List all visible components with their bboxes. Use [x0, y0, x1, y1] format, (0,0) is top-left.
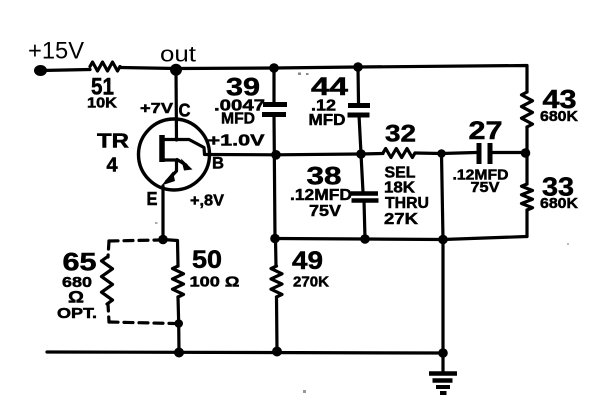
- wire: C39 bottom lead down to lower bus: [274, 115, 275, 239]
- wire: C44 top lead: [356, 67, 360, 103]
- svg-text:75V: 75V: [309, 203, 341, 220]
- svg-text:50: 50: [192, 246, 222, 274]
- wire: bottom node to ground bus: [177, 324, 181, 353]
- svg-text:MFD: MFD: [221, 111, 255, 128]
- svg-text:.12MFD: .12MFD: [290, 187, 352, 204]
- dashed box left upper edge: [108, 241, 109, 257]
- svg-text:27K: 27K: [384, 211, 419, 228]
- wire: collector lead from out node: [174, 70, 178, 141]
- wire: emitter lead down: [161, 186, 164, 240]
- svg-text:+1.0V: +1.0V: [208, 133, 265, 150]
- capacitor C39 .0047 MFD: [262, 105, 287, 115]
- svg-text:Ω: Ω: [68, 288, 84, 307]
- transistor TR4 inner arrowhead: [181, 159, 193, 171]
- terminal dot +15V: [34, 65, 47, 76]
- svg-text:680K: 680K: [540, 195, 578, 212]
- svg-text:TR: TR: [97, 131, 130, 153]
- wire: R50 to bottom node: [176, 297, 180, 324]
- transistor TR4 circle: [139, 119, 210, 190]
- wire: node B2 to R32: [361, 152, 383, 156]
- wire: C44 bottom to node B2: [359, 115, 361, 154]
- svg-text:27: 27: [469, 117, 503, 145]
- wire: node B2 down to C38: [361, 154, 363, 192]
- junction dot C39 top: [269, 63, 279, 73]
- svg-text:MFD: MFD: [309, 112, 346, 129]
- svg-text:+7V: +7V: [140, 100, 173, 117]
- resistor R51 10K: [90, 62, 120, 71]
- transistor TR4 collector internal stroke: [162, 140, 210, 155]
- junction dot emitter / R50 node: [158, 235, 168, 245]
- wire: node C2 down to ground junction: [442, 154, 444, 353]
- dashed box top edge (R65 optional): [109, 240, 160, 241]
- svg-text:270K: 270K: [293, 274, 329, 291]
- capacitor C44 .12 MFD: [348, 106, 371, 116]
- svg-text:4: 4: [106, 155, 118, 177]
- svg-text:C: C: [179, 101, 191, 121]
- resistor R49 270K: [271, 266, 282, 297]
- wire: base lead to node A: [210, 153, 277, 157]
- wire: ground stub: [441, 353, 444, 372]
- svg-text:65: 65: [63, 249, 97, 277]
- wire: R33 bottom to lower bus: [525, 210, 528, 237]
- wire: R32 to node C2: [415, 151, 441, 155]
- junction dot C44 top: [353, 62, 363, 72]
- capacitor C38 .12MFD 75V: [351, 194, 379, 201]
- wire: lower bus (C39 bottom to R33 bottom): [275, 237, 527, 240]
- junction dot R50 branch / ground bus: [174, 348, 184, 358]
- ground symbol: [429, 374, 457, 394]
- svg-text:680K: 680K: [540, 108, 578, 125]
- transistor TR4 emitter arrowhead: [162, 172, 176, 186]
- svg-text:+15V: +15V: [28, 38, 84, 65]
- resistor R33 680K: [522, 184, 533, 210]
- transistor TR4 inner arrow stroke: [177, 160, 186, 166]
- dashed box bottom edge: [109, 322, 174, 324]
- svg-text:49: 49: [292, 247, 323, 275]
- junction dot node A (base / C39 line): [271, 150, 281, 160]
- wire: node D to R33: [525, 153, 528, 184]
- dashed box left lower edge: [108, 304, 109, 322]
- svg-text:32: 32: [385, 121, 416, 148]
- wire: top bus C44 to right corner: [358, 66, 527, 93]
- junction dot C39/R49 node: [270, 234, 280, 244]
- wire: top bus C39 to C44 top: [274, 67, 358, 68]
- wire: node A to node B2: [276, 152, 361, 156]
- resistor R65 680 ohm OPT: [102, 257, 113, 304]
- wire: R43 to node D: [525, 127, 528, 153]
- junction dot R49/ground bus: [272, 347, 282, 357]
- junction dot ground bus / ground branch: [438, 348, 448, 358]
- svg-text:OPT.: OPT.: [57, 305, 97, 322]
- wire: +15V feed to R51: [41, 70, 91, 71]
- svg-text:THRU: THRU: [385, 195, 429, 212]
- svg-text:+,8V: +,8V: [190, 193, 224, 210]
- junction dot R50 / dashed box bottom: [174, 319, 183, 328]
- svg-text:E: E: [147, 189, 158, 209]
- wire: C39 top lead: [272, 68, 275, 103]
- junction dot lower bus / ground branch: [438, 235, 448, 245]
- svg-text:B: B: [212, 154, 224, 173]
- scan speckles: [155, 73, 569, 394]
- wire: R49 to ground bus: [275, 297, 279, 351]
- wire: emitter node jog to R50: [163, 240, 178, 267]
- svg-text:out: out: [160, 42, 196, 67]
- svg-text:75V: 75V: [471, 180, 500, 196]
- junction dot node C2: [437, 149, 446, 158]
- wire: top bus out to C39 top: [176, 66, 274, 70]
- resistor R50 100 ohm: [173, 266, 184, 297]
- transistor TR4 emitter internal stroke with arrow: [162, 160, 177, 182]
- wire: node C2 to C27: [442, 153, 477, 154]
- node out junction dot: [170, 64, 182, 76]
- wire: ground bus: [47, 352, 443, 353]
- capacitor C27 .12MFD 75V: [479, 143, 490, 164]
- resistor R43 680K: [522, 92, 533, 127]
- svg-text:10K: 10K: [87, 95, 117, 112]
- wire: node to R49: [274, 239, 278, 267]
- resistor R32 SEL 18K THRU 27K: [383, 149, 415, 158]
- wire: C27 to node D: [493, 151, 526, 154]
- svg-text:100 Ω: 100 Ω: [190, 274, 240, 291]
- wire: R51 to node out: [120, 68, 176, 69]
- junction dot node B2 (base bus / C38): [356, 149, 366, 159]
- svg-text:18K: 18K: [384, 180, 416, 197]
- wire: C38 bottom to lower bus: [364, 201, 365, 239]
- junction dot C38/lower bus: [360, 234, 370, 244]
- junction dot node D: [521, 148, 531, 158]
- transistor TR4 base bar: [159, 135, 165, 162]
